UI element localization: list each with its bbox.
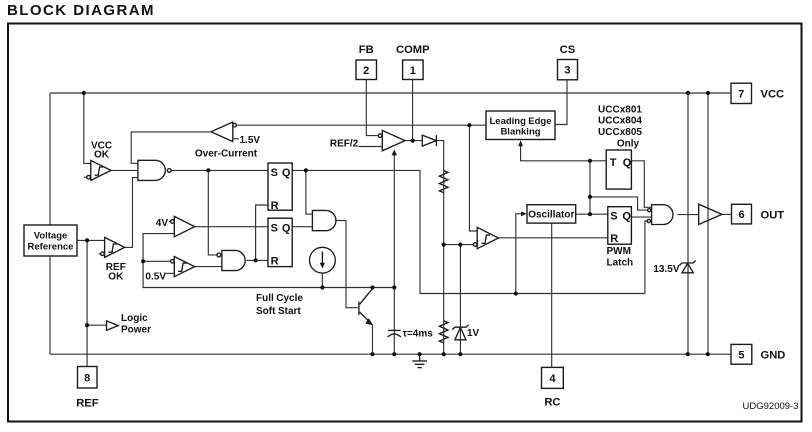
- box leading edge blanking: [486, 111, 555, 140]
- svg-text:S: S: [271, 222, 278, 234]
- svg-text:0.5V: 0.5V: [145, 271, 166, 282]
- svg-text:1V: 1V: [467, 328, 480, 339]
- wire VCC left drop to voltage reference: [49, 93, 51, 225]
- wire soft-start AND output to R of lower latch: [247, 259, 269, 261]
- svg-text:S: S: [271, 167, 278, 179]
- wire fault line tap to oscillator input: [516, 214, 521, 294]
- svg-text:8: 8: [84, 372, 90, 384]
- wire VCC OK bubble stub: [84, 176, 87, 178]
- op-amp 0.5V comparator: [166, 257, 194, 277]
- op-amp REF OK comparator: [99, 237, 125, 257]
- svg-text:UCCx804: UCCx804: [598, 116, 642, 127]
- op-amp error amplifier: [378, 130, 405, 150]
- wire clock branch to output AND bubble: [590, 197, 648, 210]
- pin 3 CS: [558, 44, 578, 80]
- wire FB pin lead: [366, 80, 378, 136]
- node oscillator input tap: [514, 291, 518, 295]
- wire REF OK output to NAND: [125, 178, 138, 248]
- box voltage reference: [24, 225, 77, 256]
- wire PWM latch Q to output AND: [631, 216, 651, 218]
- wire divider lower resistor to ground: [443, 245, 445, 355]
- gate AND soft-start reset: [217, 250, 245, 270]
- svg-text:CS: CS: [560, 44, 576, 56]
- node zener 1V tap: [458, 243, 462, 247]
- svg-text:GND: GND: [761, 349, 786, 361]
- svg-text:Q: Q: [623, 157, 632, 169]
- node soft-start rail collector: [370, 285, 374, 289]
- latch PWM SR: [608, 207, 632, 245]
- wire branch to R of upper latch: [256, 205, 268, 260]
- svg-text:REF/2: REF/2: [330, 138, 359, 149]
- op-amp 4V comparator: [169, 216, 195, 236]
- wire logic power stub: [87, 324, 106, 326]
- wire 4V comparator output to S of lower latch: [195, 226, 268, 228]
- current source soft-start charge: [310, 247, 336, 273]
- wire upper latch Q to middle AND top input: [306, 170, 313, 214]
- svg-text:Power: Power: [121, 324, 151, 335]
- wire VCC right rail with 13.5V zener: [687, 93, 689, 354]
- svg-text:Soft Start: Soft Start: [256, 306, 301, 317]
- wire output AND to driver: [677, 214, 698, 216]
- node NAND output branch: [206, 168, 210, 172]
- svg-text:OK: OK: [94, 150, 110, 161]
- ground symbol: [412, 354, 427, 367]
- svg-text:RC: RC: [544, 397, 560, 409]
- svg-text:PWM: PWM: [607, 246, 631, 257]
- wire VCC OK output to NAND: [111, 169, 138, 171]
- wire 0.5V comparator output to soft-start AND: [195, 266, 222, 268]
- wire lower latch Q to middle AND: [292, 226, 312, 228]
- capacitor soft-start: [388, 330, 401, 337]
- wire NAND output to S of upper latch: [171, 169, 268, 171]
- svg-text:Full Cycle: Full Cycle: [256, 293, 303, 304]
- wire diode to divider: [436, 141, 443, 245]
- wire error amp output to diode: [405, 140, 422, 142]
- node clock S tap: [588, 212, 592, 216]
- wire soft-start sense net: [143, 234, 394, 288]
- arrowhead soft-start clamp: [392, 149, 398, 155]
- transistor soft-start discharge: [359, 289, 373, 326]
- node GND rail joints: [370, 352, 374, 356]
- wire middle AND output to transistor base: [337, 221, 358, 308]
- wire CS pin lead to LEB: [555, 80, 567, 125]
- svg-text:Only: Only: [617, 139, 640, 150]
- wire oscillator RC lead to pin 4: [551, 223, 553, 367]
- svg-text:S: S: [610, 211, 617, 223]
- op-amp VCC OK comparator: [87, 160, 111, 180]
- svg-text:UCCx805: UCCx805: [598, 127, 642, 138]
- svg-text:R: R: [271, 256, 279, 268]
- op-amp over-current comparator: [211, 122, 239, 142]
- node upper latch Q branch: [304, 168, 308, 172]
- wire soft-start clamp arrow into error amp: [393, 153, 395, 288]
- wire COMP pin lead: [412, 80, 414, 141]
- wire T flip-flop Q to output AND: [631, 161, 651, 208]
- wire VCC top rail: [50, 92, 731, 94]
- svg-text:T: T: [610, 157, 617, 169]
- svg-text:4V: 4V: [156, 218, 169, 229]
- wire GND bottom rail: [50, 353, 731, 355]
- svg-text:2: 2: [363, 65, 369, 77]
- pin 7 VCC: [731, 83, 784, 103]
- box oscillator: [527, 205, 576, 223]
- latch lower SR (soft-start): [268, 218, 292, 267]
- op-amp PWM comparator: [473, 227, 498, 248]
- gate AND output (4-input): [647, 205, 673, 225]
- arrowhead oscillator input: [521, 211, 527, 216]
- node clock T tap: [588, 159, 592, 163]
- wire transistor emitter to ground: [372, 288, 374, 355]
- wire voltage reference ground return: [49, 256, 51, 354]
- svg-text:1: 1: [410, 65, 416, 77]
- svg-text:1.5V: 1.5V: [240, 135, 261, 146]
- svg-text:6: 6: [738, 209, 744, 221]
- node LEB output branch: [467, 123, 471, 127]
- wire LEB output to over-current comparator: [236, 124, 487, 126]
- svg-text:Logic: Logic: [121, 313, 148, 324]
- pin 2 FB: [356, 44, 377, 80]
- pin 4 RC: [542, 367, 564, 408]
- svg-text:Q: Q: [282, 222, 291, 234]
- output driver buffer: [699, 204, 722, 224]
- svg-text:13.5V: 13.5V: [653, 264, 679, 275]
- svg-text:Q: Q: [282, 167, 291, 179]
- wire over-current output to NAND: [131, 132, 211, 163]
- svg-text:REF: REF: [76, 398, 99, 410]
- svg-text:4: 4: [549, 373, 556, 385]
- svg-text:Blanking: Blanking: [500, 126, 540, 137]
- svg-text:UDG92009-3: UDG92009-3: [743, 401, 799, 412]
- pin 5 GND: [731, 344, 785, 364]
- svg-text:R: R: [271, 200, 279, 212]
- wire VCC second right rail: [707, 93, 709, 354]
- svg-text:R: R: [610, 233, 618, 245]
- latch upper SR (soft-start): [268, 163, 292, 212]
- node latch R branch: [254, 258, 258, 262]
- wire voltage reference output to REF OK: [77, 239, 105, 241]
- svg-text:7: 7: [738, 88, 744, 100]
- wire current source bottom lead: [321, 273, 323, 287]
- svg-text:5: 5: [738, 349, 744, 361]
- wire divider mid to PWM comparator: [444, 244, 474, 246]
- wire clock riser: [589, 161, 591, 214]
- logic power buffer arrow: [107, 321, 119, 330]
- wire upper latch Q fault line to output AND: [292, 170, 647, 293]
- pin 8 REF: [76, 367, 99, 410]
- zener diode 1V: [452, 325, 468, 340]
- wire clock to T flip-flop and LEB feedback: [521, 145, 607, 161]
- svg-text:VCC: VCC: [761, 89, 785, 101]
- svg-text:BLOCK DIAGRAM: BLOCK DIAGRAM: [7, 2, 155, 19]
- wire oscillator clock to S of PWM latch: [576, 213, 608, 215]
- wire REF/2 stub: [359, 146, 383, 148]
- node VCC rail taps: [82, 91, 86, 95]
- svg-text:UCCx801: UCCx801: [598, 104, 642, 115]
- svg-text:OK: OK: [108, 272, 124, 283]
- resistor R lower (divider): [439, 321, 448, 343]
- resistor R upper (divider): [439, 171, 448, 193]
- arrowhead LEB feedback: [518, 140, 523, 146]
- svg-text:Oscillator: Oscillator: [528, 210, 574, 221]
- node divider mid: [442, 243, 446, 247]
- wire soft-start capacitor lead: [393, 288, 395, 355]
- node soft-start rail capacitor: [392, 285, 396, 289]
- flip-flop T Q (toggle): [606, 150, 632, 189]
- node soft-start rail current source: [320, 285, 324, 289]
- svg-text:Voltage: Voltage: [34, 231, 68, 242]
- node COMP junction: [411, 139, 415, 143]
- wire VCC tap to VCC OK comparator: [84, 93, 91, 163]
- svg-text:Reference: Reference: [28, 242, 74, 253]
- svg-text:3: 3: [564, 65, 570, 77]
- svg-text:COMP: COMP: [396, 44, 430, 56]
- wire PWM comparator output to R of PWM latch: [498, 237, 607, 239]
- svg-text:Q: Q: [622, 211, 631, 223]
- diode error amp output: [422, 135, 436, 146]
- node clock AND tap: [588, 195, 592, 199]
- wire driver to OUT pin: [722, 213, 732, 215]
- node logic power tap: [85, 323, 89, 327]
- pin 1 COMP: [396, 44, 430, 80]
- svg-text:τ=4ms: τ=4ms: [403, 329, 434, 340]
- pin 6 OUT: [732, 204, 785, 224]
- wire LEB branch to PWM comparator top input: [469, 125, 477, 231]
- node soft-start 0.5V tap: [141, 259, 145, 263]
- gate NAND (VCC OK / over-current / REF OK): [138, 160, 171, 180]
- wire NAND output branch to soft-start AND bubble: [208, 170, 217, 255]
- svg-text:Over-Current: Over-Current: [195, 149, 258, 160]
- zener diode 13.5V: [679, 261, 695, 273]
- svg-text:Latch: Latch: [607, 258, 634, 269]
- svg-text:FB: FB: [359, 44, 374, 56]
- wire soft-start stub to 0.5V bubble: [143, 260, 171, 262]
- gate AND middle (soft-start discharge): [312, 210, 336, 230]
- wire 1V zener branch: [459, 245, 461, 355]
- wire REF net down to pin 8: [86, 240, 88, 366]
- svg-text:Leading Edge: Leading Edge: [489, 116, 551, 127]
- svg-text:OUT: OUT: [761, 210, 785, 222]
- node REF output branch: [85, 238, 89, 242]
